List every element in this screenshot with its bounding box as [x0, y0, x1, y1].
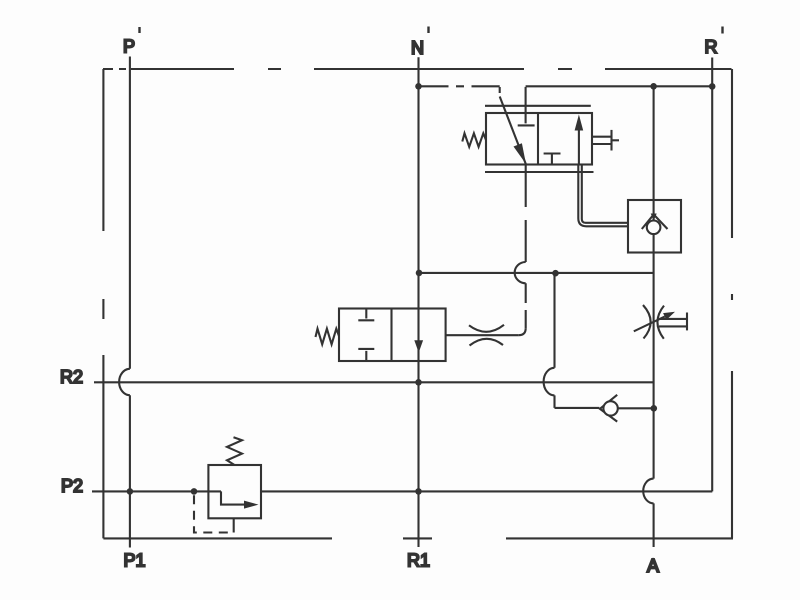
wire R2 rail y382: [94, 381, 654, 383]
svg-text:P2: P2: [61, 476, 83, 496]
node junction check A dot: [651, 405, 658, 412]
svg-text:R: R: [705, 37, 718, 57]
node junction branch mid dot: [552, 270, 559, 277]
valve V1 left cell diagonal flow arrow: [500, 97, 526, 165]
wire P2 rail y491: [92, 490, 712, 492]
wire R line vertical: [711, 58, 713, 492]
pilot check valve ball: [603, 401, 617, 415]
wire V1 output double-line to check block: [578, 165, 628, 227]
relief valve RV1 box: [208, 465, 261, 518]
pilot check valve seat: [600, 395, 617, 422]
node junction A header dot: [650, 83, 657, 90]
check valve U1 ball: [647, 221, 661, 235]
wire V2 to fixed restrictor y335: [446, 334, 519, 336]
valve V1 cell divider: [537, 113, 539, 165]
enclosure border top (dash-dot): [103, 68, 732, 70]
valve V2 two-position valve outer box: [339, 309, 446, 362]
valve V1 top blocked port T bar: [518, 124, 535, 126]
relief valve RV1 internal flow path arrow: [221, 491, 259, 508]
valve V1 proportional solenoid: [592, 130, 619, 151]
valve V1 return spring: [462, 133, 486, 147]
wire branch down from mid dot with hop over R2, to pilot check: [544, 273, 600, 408]
valve V2 cell divider: [390, 309, 392, 362]
node junction relief pilot dot: [191, 488, 198, 495]
enclosure border bottom (dash-dot): [103, 537, 733, 539]
wire N-R1 line vertical: [417, 57, 419, 547]
svg-text:R1: R1: [407, 551, 430, 571]
valve V1 top blocked port stem: [525, 87, 527, 124]
enclosure border left (dash-dot): [102, 69, 104, 538]
fixed restrictor arcs: [469, 325, 504, 346]
check valve U1 seat: [642, 215, 668, 230]
label P prime tick: [138, 27, 140, 33]
valve V2 left cell bottom blocked port T: [358, 349, 374, 361]
throttle valve F1 tappet: [659, 313, 687, 331]
node junction P P2 dot: [127, 488, 134, 495]
wire P line vertical with hop over R2: [119, 57, 130, 548]
svg-text:N: N: [411, 38, 424, 58]
enclosure border right (dash-dot): [731, 69, 733, 538]
wire top pilot header N to R at y86: [419, 85, 713, 87]
wire mid interconnect y273: [419, 272, 654, 274]
svg-text:P: P: [123, 37, 135, 57]
throttle valve F1 adjustment arrow: [634, 312, 675, 332]
valve V2 return spring: [316, 329, 340, 345]
check valve block U1 box: [628, 200, 681, 253]
svg-text:A: A: [647, 556, 659, 576]
label N prime tick: [427, 27, 429, 34]
valve V1 pilot drop from header (dashed): [499, 87, 501, 93]
relief valve RV1 pilot line dashed: [194, 495, 234, 532]
valve V1 proportional directional valve outer box: [486, 113, 592, 165]
svg-text:R2: R2: [60, 367, 83, 387]
wire pilot check to A line: [618, 407, 654, 409]
label R prime tick: [721, 27, 723, 34]
valve V1 proportional parallel line bottom: [485, 171, 594, 173]
wire pilot drop from V1 bottom to restrictor line (dashed, hop over y273): [515, 165, 526, 336]
relief valve RV1 spring: [227, 437, 242, 465]
valve V2 right cell down arrow on N line: [414, 340, 423, 352]
valve V1 right cell bottom blocked port T: [544, 154, 561, 165]
node junction N mid dot: [416, 270, 423, 277]
svg-text:P1: P1: [123, 551, 145, 571]
valve V1 right cell up arrow: [575, 115, 584, 165]
valve V1 proportional parallel line top: [485, 105, 591, 107]
node junction R1 P2 dot: [415, 488, 422, 495]
node junction N header dot: [415, 83, 422, 90]
node junction N R2 dot: [415, 379, 422, 386]
wire A line vertical with hop over P2: [643, 86, 653, 547]
throttle valve F1 arcs: [643, 305, 664, 339]
check valve U1 inlet arrowhead: [651, 214, 657, 221]
node junction R header dot: [709, 83, 716, 90]
valve V2 left cell top blocked port T: [358, 309, 374, 321]
